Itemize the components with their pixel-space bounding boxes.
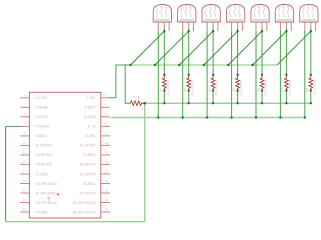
svg-text:100 Ohms: 100 Ohms	[215, 80, 219, 96]
wire resistor R4 bottom to h1	[212, 91, 214, 104]
wire LED7 middle leg vertical to resistor	[310, 28, 312, 75]
svg-text:2-+5V: 2-+5V	[86, 96, 96, 100]
svg-text:20-DNC: 20-DNC	[83, 182, 96, 186]
resistor R3 100 Ohms	[187, 75, 191, 91]
svg-text:26: 26	[105, 207, 109, 211]
svg-text:3-SDA0: 3-SDA0	[36, 106, 49, 110]
wire LED5 left leg to GND h2	[255, 31, 257, 118]
wire LED3 left leg to GND h2	[206, 31, 208, 118]
wire +5V bus horizontal	[131, 64, 278, 66]
svg-text:18-GPIO5: 18-GPIO5	[79, 172, 95, 176]
svg-text:21: 21	[23, 188, 27, 192]
wire resistor R2 bottom to h1	[163, 91, 165, 104]
pin 23 stub	[20, 202, 29, 204]
wire resistor R8 bottom to h1	[310, 91, 312, 104]
pin 16 stub	[101, 163, 110, 165]
svg-text:12: 12	[105, 141, 109, 145]
wire pin2 +5V to bus	[110, 65, 131, 98]
wire LED1 left leg to GND h2	[157, 31, 159, 118]
junction dots on +5V bus	[129, 64, 131, 66]
pin 19 stub	[20, 183, 29, 185]
pin 8 stub	[101, 125, 110, 127]
svg-text:21-SPI-MISO: 21-SPI-MISO	[36, 191, 58, 195]
svg-text:4.7K: 4.7K	[132, 94, 141, 99]
svg-text:R1: R1	[140, 106, 146, 111]
svg-text:19-SPI-MOSI: 19-SPI-MOSI	[36, 182, 57, 186]
svg-text:15-GPIO3: 15-GPIO3	[36, 163, 52, 167]
pin 4 stub	[101, 106, 110, 108]
svg-text:18: 18	[105, 169, 109, 173]
svg-text:100 Ohms: 100 Ohms	[288, 80, 292, 96]
svg-text:100 Ohms: 100 Ohms	[312, 80, 316, 96]
junction dots LED middle legs	[163, 30, 165, 32]
svg-text:10: 10	[105, 131, 109, 135]
junction dots h2 ground	[157, 116, 159, 118]
resistor R4 100 Ohms	[211, 75, 215, 91]
svg-text:15: 15	[23, 160, 27, 164]
wire left vertical	[5, 126, 7, 221]
resistor R5 100 Ohms	[236, 75, 240, 91]
wire LED3 middle leg vertical to resistor	[212, 28, 214, 75]
svg-text:24: 24	[105, 198, 109, 202]
pin 24 stub	[101, 202, 110, 204]
pin 20 stub	[101, 183, 110, 185]
LED2 RGB LED	[178, 5, 196, 32]
IC U1 Raspberry Pi GPIO	[29, 92, 100, 218]
svg-text:22-GPIO6: 22-GPIO6	[79, 191, 95, 195]
wire LED1 diagonal to +5V bus	[131, 31, 165, 65]
pin 17 stub	[20, 173, 29, 175]
svg-text:100 Ohms: 100 Ohms	[190, 80, 194, 96]
svg-text:10-RX: 10-RX	[85, 134, 96, 138]
svg-text:6-GND: 6-GND	[84, 115, 96, 119]
svg-text:16-GPIO4: 16-GPIO4	[79, 163, 95, 167]
svg-text:11: 11	[23, 141, 26, 145]
svg-text:100 Ohms: 100 Ohms	[264, 80, 268, 96]
svg-text:7-GPIO7: 7-GPIO7	[36, 125, 50, 129]
wire LED4 diagonal to +5V bus	[204, 31, 238, 65]
wire LED6 middle leg vertical to resistor	[285, 28, 287, 75]
svg-text:20: 20	[105, 179, 109, 183]
pin 12 stub	[101, 144, 110, 146]
svg-text:14-DNC: 14-DNC	[83, 153, 96, 157]
svg-text:R7: R7	[281, 88, 285, 92]
svg-text:23: 23	[23, 198, 27, 202]
svg-text:25: 25	[23, 207, 27, 211]
wire resistor R7 bottom to h1	[285, 91, 287, 104]
origin crosshair	[46, 197, 50, 202]
wire LED2 middle leg vertical to resistor	[188, 28, 190, 75]
svg-text:16: 16	[105, 160, 109, 164]
junction dot R1 right node	[143, 102, 146, 105]
LED1 RGB LED	[153, 5, 171, 32]
wire LED7 diagonal to +5V bus	[277, 31, 311, 65]
wire riser x144.7 to R1 right node	[144, 103, 146, 222]
svg-text:R6: R6	[257, 88, 261, 92]
pin 13 stub	[20, 154, 29, 156]
svg-text:12-GPIO1: 12-GPIO1	[79, 144, 95, 148]
wire resistor R5 bottom to h1	[237, 91, 239, 104]
pin 3 stub	[20, 106, 29, 108]
svg-text:9-DNC: 9-DNC	[36, 134, 47, 138]
svg-text:1-+3V3: 1-+3V3	[36, 96, 48, 100]
svg-text:13-GPIO2: 13-GPIO2	[36, 153, 52, 157]
pin 7 stub	[20, 125, 29, 127]
wire LED5 middle leg vertical to resistor	[261, 28, 263, 75]
svg-text:24-SPI-CE0-N: 24-SPI-CE0-N	[73, 201, 96, 205]
svg-text:100 Ohms: 100 Ohms	[239, 80, 243, 96]
svg-text:5-SCL0: 5-SCL0	[36, 115, 48, 119]
pin 21 stub	[20, 192, 29, 194]
svg-text:13: 13	[23, 150, 27, 154]
wire LED6 left leg to GND h2	[279, 31, 281, 118]
wire LED2 diagonal to +5V bus	[155, 31, 189, 65]
pin 9 stub	[20, 135, 29, 137]
svg-text:4-DNC: 4-DNC	[85, 106, 96, 110]
pin 1 stub	[20, 97, 29, 99]
resistor R2 100 Ohms	[162, 75, 166, 91]
pin 14 stub	[101, 154, 110, 156]
wire LED5 diagonal to +5V bus	[228, 31, 262, 65]
pin 5 stub	[20, 116, 29, 118]
wire h1 resistor-bottom bus	[145, 102, 311, 104]
LED4 RGB LED	[227, 5, 245, 32]
pin21 red marker	[57, 194, 59, 196]
wire pin6 GND bus h2	[111, 117, 305, 119]
wire LED2 left leg to GND h2	[182, 31, 184, 118]
pin 22 stub	[101, 192, 110, 194]
wire LED4 middle leg vertical to resistor	[237, 28, 239, 75]
svg-text:14: 14	[105, 150, 109, 154]
resistor R6 100 Ohms	[260, 75, 264, 91]
resistor R1 4.7K	[131, 101, 145, 106]
svg-text:R5: R5	[232, 88, 236, 92]
pin 2 stub	[101, 97, 110, 99]
svg-text:25-DNC: 25-DNC	[36, 210, 49, 214]
wire LED7 left leg to GND h2	[304, 31, 306, 118]
wire bus down to R1 left	[125, 65, 130, 103]
pin 25 stub	[20, 211, 29, 213]
pin 26 stub	[101, 211, 110, 213]
pin 6 stub	[101, 116, 110, 118]
svg-text:17-DNC: 17-DNC	[36, 172, 49, 176]
LED7 RGB LED	[300, 5, 318, 32]
svg-text:23-SPI-SCLK: 23-SPI-SCLK	[36, 201, 58, 205]
wire LED1 middle leg vertical to resistor	[163, 28, 165, 75]
svg-text:R8: R8	[306, 88, 310, 92]
svg-text:19: 19	[23, 179, 27, 183]
pin 10 stub	[101, 135, 110, 137]
pin 11 stub	[20, 144, 29, 146]
svg-text:R4: R4	[208, 88, 212, 92]
resistor R8 100 Ohms	[309, 75, 313, 91]
wire pin7 to left	[6, 125, 21, 127]
svg-text:R3: R3	[184, 88, 188, 92]
wire LED4 left leg to GND h2	[231, 31, 233, 118]
svg-text:22: 22	[105, 188, 109, 192]
wire LED6 diagonal to +5V bus	[253, 31, 287, 65]
svg-text:17: 17	[23, 169, 27, 173]
svg-text:8-TX: 8-TX	[88, 125, 96, 129]
resistor R7 100 Ohms	[285, 75, 289, 91]
LED5 RGB LED	[251, 5, 269, 32]
svg-text:26-SPI-CE1-N: 26-SPI-CE1-N	[73, 210, 96, 214]
svg-text:100 Ohms: 100 Ohms	[166, 80, 170, 96]
svg-text:R2: R2	[159, 88, 163, 92]
wire resistor R3 bottom to h1	[188, 91, 190, 104]
LED3 RGB LED	[202, 5, 220, 32]
wire resistor R6 bottom to h1	[261, 91, 263, 104]
LED6 RGB LED	[275, 5, 293, 32]
wire bottom horizontal	[6, 221, 145, 223]
pin 18 stub	[101, 173, 110, 175]
pin 15 stub	[20, 163, 29, 165]
wire LED3 diagonal to +5V bus	[179, 31, 213, 65]
junction dots resistor tops/bottoms and h1	[163, 74, 165, 76]
svg-text:11-GPIO0: 11-GPIO0	[36, 144, 52, 148]
